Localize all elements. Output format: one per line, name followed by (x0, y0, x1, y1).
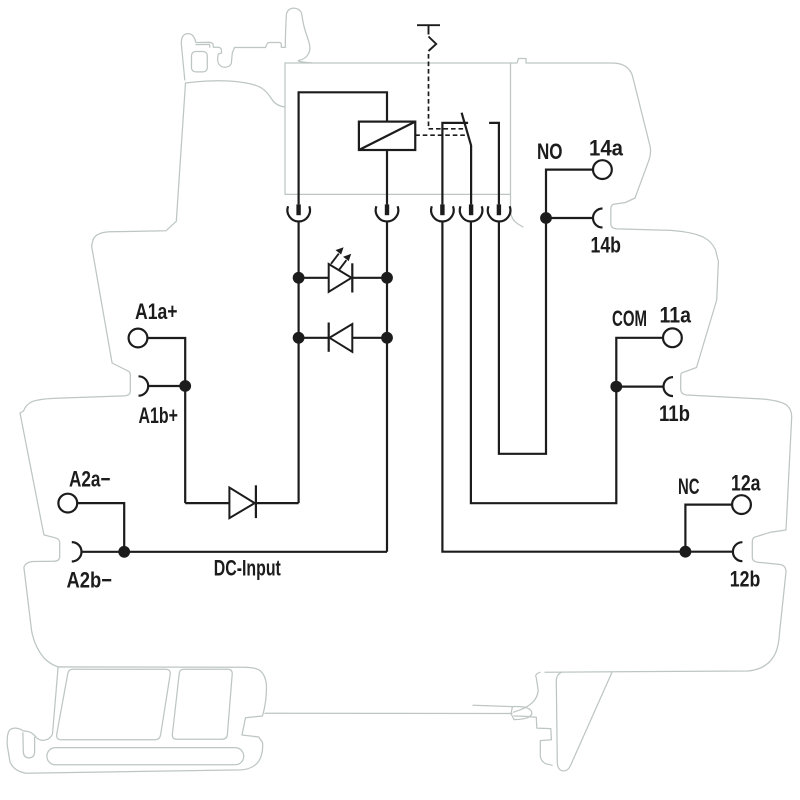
housing left side outline (20, 83, 186, 667)
left LED rail (298, 221, 300, 503)
wire coil loop top (299, 92, 387, 204)
svg-text:A2b−: A2b− (67, 568, 113, 593)
right clamp bracket (514, 672, 553, 765)
changeover contact (442, 113, 499, 205)
junction dots on rails (293, 272, 305, 284)
ejector lever top-left (181, 8, 312, 80)
terminal A2b (72, 542, 82, 561)
svg-text:11b: 11b (659, 401, 690, 426)
svg-text:14a: 14a (589, 136, 624, 161)
right coil rail (386, 221, 388, 552)
svg-text:NO: NO (537, 139, 563, 164)
rail pocket (511, 707, 532, 720)
terminal A2a (58, 494, 77, 513)
plug-in clamp contacts (pins + sockets) (287, 204, 510, 221)
terminal 14b (593, 209, 603, 228)
terminal 11b (664, 377, 674, 396)
svg-text:14b: 14b (591, 233, 622, 258)
LED arrows (331, 254, 346, 271)
LED wires (299, 277, 387, 279)
wire coil bottom (386, 150, 388, 204)
svg-text:A1b+: A1b+ (139, 403, 179, 428)
terminal 11a (663, 328, 682, 347)
series diode D1 wires (185, 502, 298, 504)
terminal 12a (732, 495, 751, 514)
NC junction (680, 546, 692, 558)
DIN rail top line (265, 712, 512, 714)
lever inner step (196, 44, 210, 47)
svg-text:11a: 11a (660, 303, 692, 328)
foot left hook slot (23, 733, 35, 758)
svg-text:COM: COM (612, 306, 647, 331)
reverse diode D3 (330, 324, 353, 352)
svg-text:NC: NC (678, 474, 700, 499)
relay unit box (285, 63, 511, 194)
svg-text:A2a−: A2a− (69, 467, 111, 492)
right clamp slant piece (556, 672, 612, 771)
NC wire from contact (442, 221, 685, 552)
LED D2 (329, 264, 352, 292)
terminal 14a (593, 160, 612, 179)
relay coil K1 (359, 122, 415, 150)
svg-text:A1a+: A1a+ (135, 299, 178, 324)
foot panel left (57, 669, 171, 740)
foot slot (47, 748, 244, 765)
terminal 12b (733, 542, 743, 561)
shoulder arc between lever and relay box (186, 81, 286, 107)
svg-text:DC-Input: DC-Input (214, 556, 281, 581)
series diode D1 (229, 488, 254, 519)
foot sled outline (7, 667, 266, 773)
foot panel right (172, 669, 232, 739)
svg-text:12a: 12a (731, 471, 761, 496)
reverse diode wires (299, 337, 387, 339)
terminal A1a (129, 329, 148, 348)
housing top edge + right side outline (285, 59, 792, 673)
lever inner hole (192, 52, 208, 72)
NO junction (540, 212, 552, 224)
gusset at box bottom right (511, 194, 524, 227)
terminal A1b (139, 376, 149, 395)
test button actuator (417, 25, 440, 51)
NO wire from contact (499, 170, 593, 454)
COM wire from contact (471, 221, 663, 503)
mechanical linkage dashed lines (415, 54, 468, 135)
DIN rail lip line (473, 705, 513, 706)
COM junction (610, 381, 622, 393)
DC input wire (124, 551, 387, 553)
svg-text:12b: 12b (730, 567, 761, 592)
